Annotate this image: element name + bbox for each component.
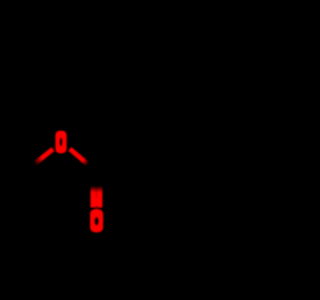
double bond C=O2 seam between the two parallel lines (upper faint part): [95, 187, 97, 198]
double bond C=O2 black half near carbon (invisible): [91, 172, 103, 186]
atom O1 ester oxygen label: [55, 131, 66, 154]
bond O1-CH3: black half to methyl carbon (invisible on black): [20, 163, 36, 176]
bond O1-CH3: red half near ester oxygen, fading at midpoint: [35, 149, 53, 164]
bond O1-C(carbonyl): red half near ester oxygen, fading at midpoint: [70, 149, 88, 164]
double bond C=O2 red half near oxygen (two merged parallel lines): [91, 187, 103, 208]
bond O1-C(carbonyl): black half (invisible): [86, 163, 97, 171]
atom O2 carbonyl oxygen label: [90, 209, 103, 232]
double bond C=O2 seam notch at bottom between line ends: [95, 205, 98, 209]
